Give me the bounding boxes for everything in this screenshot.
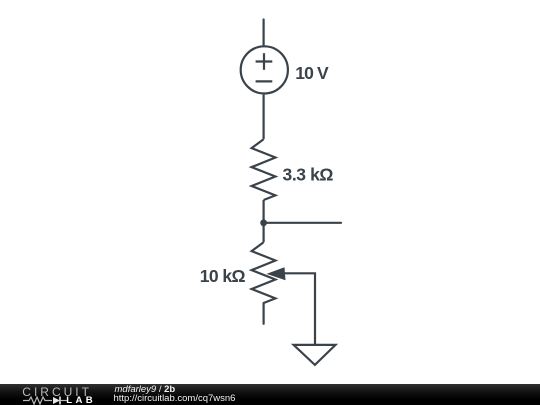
svg-text:3.3 kΩ: 3.3 kΩ (283, 164, 334, 184)
svg-text:10 kΩ: 10 kΩ (200, 266, 246, 286)
svg-text:10 V: 10 V (295, 63, 329, 83)
